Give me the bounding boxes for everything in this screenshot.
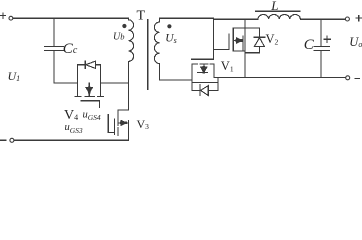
label Us (165, 33, 176, 46)
svg-text:uGS4: uGS4 (83, 110, 101, 123)
wire top rail primary (13, 17, 128, 19)
output plus terminal (345, 15, 361, 21)
label uGS3 (65, 122, 83, 135)
label V3 (137, 117, 150, 131)
wire V2 drain bar (233, 27, 259, 29)
svg-text:Uo: Uo (349, 35, 362, 49)
label Cc (63, 41, 78, 57)
wire V4 to primary bottom node (100, 82, 128, 84)
capacitor Cc (45, 18, 64, 83)
label V2 (266, 32, 279, 47)
wire secondary bottom bus (160, 79, 192, 81)
secondary dot (167, 24, 171, 28)
diode below V1 (192, 78, 218, 96)
svg-text:V3: V3 (137, 117, 150, 131)
diode across V2 (245, 28, 265, 53)
label V1 (221, 59, 234, 74)
svg-text:T: T (137, 9, 146, 24)
wire V2 drain riser (244, 19, 246, 77)
svg-text:uGS3: uGS3 (65, 122, 83, 135)
wire bottom rail secondary (214, 77, 346, 79)
diode across V4 (78, 61, 101, 69)
label Uo (349, 35, 362, 49)
transformer secondary winding (154, 18, 159, 80)
svg-text:C: C (304, 37, 315, 53)
input minus terminal (1, 138, 14, 142)
label U1 (8, 69, 21, 83)
svg-text:V1: V1 (221, 59, 234, 74)
transistor V2 (229, 28, 245, 51)
wire bottom rail primary (14, 139, 129, 141)
svg-text:Ub: Ub (113, 32, 124, 43)
label Ub primary winding (113, 32, 124, 43)
transistor V4 (75, 65, 104, 108)
wire gate drive drop (213, 19, 215, 59)
inductor L (255, 11, 300, 19)
svg-text:V4: V4 (64, 108, 78, 123)
capacitor C (314, 19, 330, 77)
wire secondary top rail (160, 18, 258, 19)
transistor V3 (108, 110, 128, 140)
label T (137, 9, 146, 24)
label V4 (64, 108, 78, 123)
label uGS4 (83, 110, 101, 123)
transistor V1 (192, 59, 215, 90)
label C (304, 37, 315, 53)
wire Cc to V4 drain (54, 82, 78, 84)
transformer core (147, 20, 149, 90)
input plus terminal (0, 13, 13, 20)
transformer T primary winding (128, 18, 133, 110)
svg-text:Cc: Cc (63, 41, 78, 57)
svg-text:U1: U1 (8, 69, 21, 83)
output minus terminal (346, 76, 360, 80)
primary dot (122, 24, 126, 28)
svg-text:Us: Us (165, 33, 176, 46)
svg-text:L: L (270, 0, 278, 13)
label L (270, 0, 278, 13)
wire V2 gate branch (214, 48, 229, 50)
svg-text:V2: V2 (266, 32, 279, 47)
wire L to output plus (300, 18, 345, 20)
